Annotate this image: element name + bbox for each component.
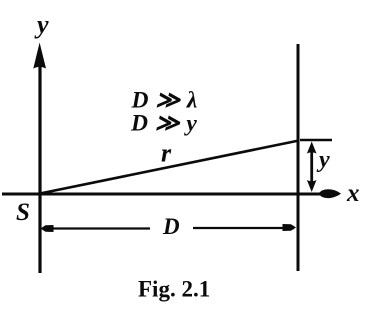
y-dimension lower arrowhead	[307, 180, 317, 192]
svg-text:y: y	[316, 147, 330, 173]
D-dimension right arrowhead	[283, 224, 297, 231]
D-dimension left arrowhead	[41, 225, 54, 232]
x-axis line	[2, 193, 323, 196]
D-dimension left segment	[43, 227, 150, 229]
svg-text:D ≫ y: D ≫ y	[130, 111, 197, 137]
D-dimension right segment	[193, 227, 294, 229]
svg-text:r: r	[161, 139, 172, 168]
svg-text:x: x	[346, 180, 360, 207]
svg-text:Fig. 2.1: Fig. 2.1	[138, 277, 210, 302]
svg-text:y: y	[34, 10, 49, 39]
y-axis arrowhead	[33, 43, 46, 69]
svg-text:D: D	[162, 214, 180, 239]
y-dimension upper arrowhead	[307, 142, 317, 154]
svg-text:S: S	[16, 199, 30, 226]
y-dimension top tick	[300, 139, 332, 142]
ray r from S to screen	[40, 141, 299, 194]
screen line	[297, 44, 300, 271]
y-dimension shaft	[310, 146, 313, 188]
y-axis shaft	[38, 62, 41, 273]
x-axis arrowhead	[318, 189, 341, 198]
